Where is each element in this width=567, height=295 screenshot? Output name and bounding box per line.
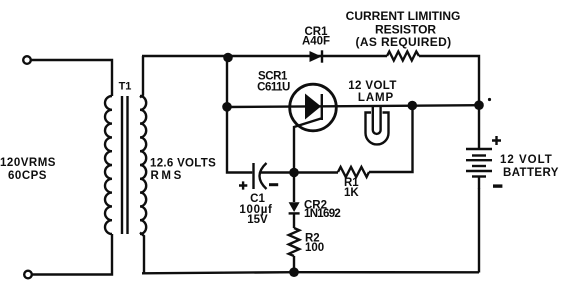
svg-text:1N1692: 1N1692 — [304, 208, 340, 220]
svg-text:15V: 15V — [247, 214, 268, 226]
svg-text:RMS: RMS — [151, 170, 184, 182]
svg-text:C611U: C611U — [257, 82, 290, 94]
svg-text:BATTERY: BATTERY — [503, 167, 559, 179]
svg-text:12 VOLT: 12 VOLT — [348, 80, 397, 92]
svg-text:1K: 1K — [344, 187, 359, 199]
svg-text:T1: T1 — [119, 81, 132, 93]
svg-text:12 VOLT: 12 VOLT — [500, 154, 553, 166]
svg-text:100: 100 — [305, 242, 324, 254]
svg-text:12.6 VOLTS: 12.6 VOLTS — [150, 157, 216, 169]
svg-text:120VRMS: 120VRMS — [0, 157, 56, 169]
svg-text:CURRENT LIMITING: CURRENT LIMITING — [346, 9, 461, 23]
svg-text:LAMP: LAMP — [358, 92, 394, 104]
svg-text:60CPS: 60CPS — [8, 170, 47, 182]
svg-text:A40F: A40F — [302, 36, 330, 48]
svg-text:(AS REQUIRED): (AS REQUIRED) — [356, 35, 452, 49]
